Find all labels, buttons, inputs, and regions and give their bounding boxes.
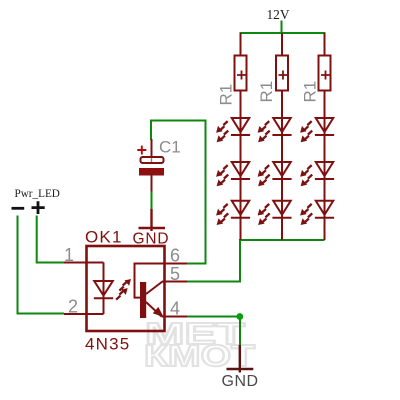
svg-text:R1: R1 (301, 81, 320, 103)
svg-text:5: 5 (170, 264, 180, 284)
svg-text:GND: GND (133, 231, 170, 248)
svg-text:4: 4 (170, 299, 180, 319)
svg-text:6: 6 (170, 246, 180, 266)
svg-text:R1: R1 (217, 84, 236, 106)
svg-text:2: 2 (68, 297, 78, 317)
svg-text:Pwr_LED: Pwr_LED (15, 188, 60, 200)
svg-text:4N35: 4N35 (85, 335, 130, 354)
svg-text:R1: R1 (257, 81, 276, 103)
svg-text:1: 1 (64, 245, 74, 265)
svg-text:C1: C1 (159, 138, 181, 157)
svg-text:КМОТ: КМОТ (144, 338, 255, 373)
svg-text:GND: GND (222, 373, 259, 390)
svg-text:OK1: OK1 (85, 228, 123, 247)
svg-text:12V: 12V (266, 7, 289, 22)
